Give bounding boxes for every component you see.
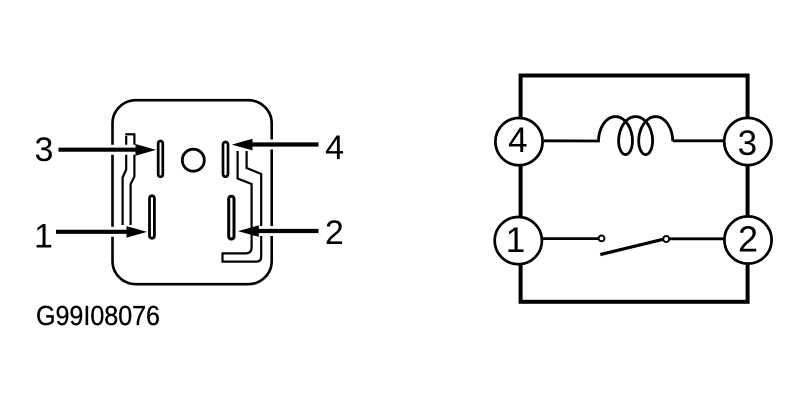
switch contact right	[663, 236, 669, 242]
pin slot 1	[150, 196, 155, 238]
svg-text:G99I08076: G99I08076	[36, 300, 160, 331]
terminal circle 1	[495, 217, 542, 264]
arrow to pin 1 halo	[56, 227, 128, 237]
svg-text:2: 2	[738, 219, 758, 260]
arrow to pin 1	[56, 230, 128, 234]
pin slot 4	[223, 142, 228, 177]
switch wire to terminal 2	[669, 237, 748, 240]
arrow to pin 1 head	[127, 226, 148, 238]
svg-text:3: 3	[35, 131, 54, 169]
arrow to pin 3 head	[136, 144, 157, 156]
svg-text:3: 3	[738, 124, 757, 163]
schematic frame	[521, 76, 748, 302]
svg-text:2: 2	[325, 214, 344, 252]
svg-text:4: 4	[325, 129, 344, 167]
arrow to pin 2 head	[238, 225, 259, 237]
pin slot 3	[158, 141, 163, 177]
arrow to pin 2 halo	[258, 226, 319, 236]
arrow to pin 4	[253, 142, 319, 146]
coil wire between terminals 4 and 3	[544, 117, 724, 155]
keyway channel left cap	[125, 133, 135, 135]
pin slot 2	[229, 196, 234, 239]
svg-text:1: 1	[506, 221, 525, 260]
keyway channel right outer line	[223, 151, 262, 262]
keyway channel right foot cap	[221, 252, 223, 262]
switch wire from terminal 1	[518, 237, 598, 240]
keyway channel left leg B	[131, 135, 135, 226]
keyway channel left leg A	[123, 136, 127, 225]
svg-text:1: 1	[34, 218, 53, 256]
switch contact left	[599, 236, 605, 242]
terminal circle 4	[495, 118, 542, 165]
terminal circle 2	[724, 216, 771, 263]
arrow to pin 2	[259, 229, 319, 233]
relay housing outline	[113, 100, 272, 284]
switch blade	[600, 239, 662, 254]
keyway channel right inner line	[223, 151, 252, 253]
arrow to pin 3 halo	[59, 145, 138, 155]
arrow to pin 3	[59, 148, 137, 152]
svg-text:4: 4	[508, 121, 527, 160]
terminal circle 3	[724, 118, 771, 165]
arrow to pin 4 halo	[252, 140, 319, 150]
center locating circle	[182, 149, 204, 171]
arrow to pin 4 head	[232, 139, 253, 151]
